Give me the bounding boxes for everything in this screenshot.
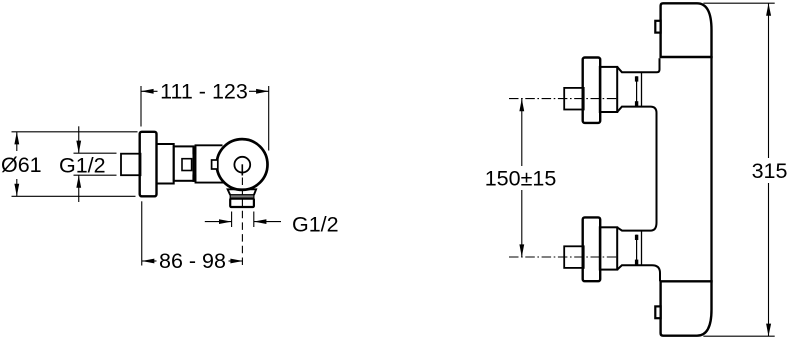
top escutcheon: [583, 58, 601, 123]
bottom adapter: [600, 227, 617, 269]
dim G1/2 inlet arrow down: [78, 126, 80, 153]
dim G1/2 outlet tick left: [231, 212, 233, 228]
centerline dashes upper: [241, 178, 243, 195]
dim 86-98 line left: [142, 260, 157, 262]
top adapter: [600, 67, 617, 112]
dim 111-123 line left: [141, 90, 158, 92]
top cap: [661, 3, 712, 57]
dim G1/2 outlet line left: [205, 221, 232, 223]
dim G1/2 outlet tick right: [253, 212, 255, 228]
top joint blob upper: [635, 76, 638, 81]
svg-text:315: 315: [752, 159, 788, 183]
svg-text:G1/2: G1/2: [292, 212, 339, 236]
dim 315 line lower: [768, 183, 770, 336]
collar section: [157, 144, 174, 184]
outlet nipple: [230, 199, 254, 207]
bottom cap: [661, 281, 712, 335]
dim 111-123 line right: [249, 90, 269, 92]
inner circle: [234, 157, 250, 173]
dim 150+-15 line lower: [521, 190, 523, 257]
dim 111-123 arrow right: [256, 89, 269, 94]
dim O61 ext line bottom: [12, 195, 136, 197]
dim 111-123 ext line right: [268, 86, 270, 151]
centerline dashes lower: [241, 199, 243, 268]
joint line: [193, 147, 195, 181]
bottom supply pipe: [564, 246, 584, 268]
dim O61 arrow line down: [16, 179, 18, 196]
joint blob bottom: [192, 175, 196, 182]
bottom joint blob upper: [635, 235, 638, 240]
dim 315 ext line bottom: [703, 335, 774, 337]
dim 86-98 line right: [229, 260, 244, 262]
svg-text:Ø61: Ø61: [1, 153, 42, 177]
top boss face: [641, 72, 643, 106]
dim 315 line upper: [768, 3, 770, 158]
indicator line: [241, 164, 243, 175]
top cap clip: [655, 21, 660, 33]
tab on knob left: [212, 160, 218, 169]
body right edge: [710, 56, 712, 283]
outlet thread band: [230, 195, 254, 199]
bottom escutcheon: [583, 217, 601, 281]
supply pipe stub: [121, 154, 141, 176]
dim 315 ext line top: [703, 2, 774, 4]
top union nut bottom edge: [617, 107, 656, 231]
svg-text:150±15: 150±15: [485, 166, 557, 190]
svg-text:111 - 123: 111 - 123: [160, 79, 248, 103]
dim O61 ext line top: [12, 131, 138, 133]
dim G1/2 inlet ext line top: [74, 152, 117, 154]
check valve box: [182, 159, 192, 171]
top union nut top edge: [617, 58, 659, 72]
bottom inlet centerline: [509, 256, 617, 258]
top inlet centerline: [509, 98, 617, 100]
body section to knob: [196, 145, 224, 182]
outlet flange: [228, 189, 257, 195]
bottom union nut bottom edge: [617, 265, 660, 281]
escutcheon flange: [140, 132, 157, 197]
dim 111-123 ext line left: [140, 86, 142, 127]
dim 150+-15 line upper: [521, 99, 523, 166]
bottom joint blob lower: [635, 260, 638, 265]
mid body section: [174, 146, 194, 180]
svg-text:86 - 98: 86 - 98: [159, 249, 226, 273]
knob circle: [217, 139, 268, 190]
svg-text:G1/2: G1/2: [59, 153, 106, 177]
top joint line: [636, 76, 638, 106]
bottom joint line: [636, 235, 638, 265]
joint blob top: [192, 147, 196, 154]
dim G1/2 outlet line right: [254, 221, 281, 223]
top supply pipe: [564, 88, 584, 110]
dim G1/2 inlet ext line bottom: [74, 174, 117, 176]
dim G1/2 inlet arrow up: [78, 175, 80, 202]
dim 86-98 ext line: [141, 201, 143, 265]
bottom boss face: [641, 231, 643, 266]
top joint blob lower: [635, 101, 638, 106]
bottom cap clip: [655, 306, 660, 318]
dim 111-123 arrow left: [141, 89, 154, 94]
dim O61 arrow line up: [16, 132, 18, 151]
